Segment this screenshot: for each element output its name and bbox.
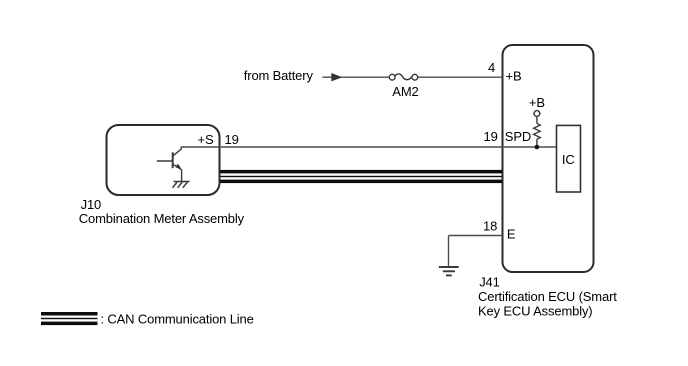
base lead [157, 160, 173, 162]
svg-text:+B: +B [506, 69, 522, 84]
svg-text:AM2: AM2 [392, 84, 418, 99]
svg-text:Certification ECU (Smart: Certification ECU (Smart [478, 289, 617, 304]
svg-text:J10: J10 [81, 197, 102, 212]
svg-text:IC: IC [562, 152, 575, 167]
legend CAN line sample [41, 312, 98, 325]
svg-text:J41: J41 [479, 274, 500, 289]
earth ground (J41 E) [439, 267, 459, 275]
svg-text:Combination Meter Assembly: Combination Meter Assembly [79, 211, 245, 226]
transistor Q (in J10) [157, 147, 182, 181]
fuse AM2 [389, 74, 417, 80]
connector box J41 Certification ECU [503, 45, 594, 272]
wire from Battery to pin 4 [322, 76, 502, 78]
svg-text:19: 19 [225, 132, 239, 147]
resistor (pull-up to +B) [534, 116, 541, 147]
svg-text:19: 19 [484, 129, 498, 144]
svg-text:18: 18 [483, 218, 497, 233]
svg-text:+B: +B [529, 95, 545, 110]
svg-text:SPD: SPD [505, 129, 531, 144]
CAN communication line (triple band) [221, 170, 503, 183]
svg-text:from Battery: from Battery [244, 68, 314, 83]
svg-text:Key ECU Assembly): Key ECU Assembly) [478, 303, 592, 318]
emitter lead down [181, 170, 183, 182]
collector [173, 147, 181, 156]
svg-text:+S: +S [198, 132, 214, 147]
base bar [172, 152, 174, 168]
+B pull-up terminal circle [533, 111, 541, 117]
arrow head (from Battery) [332, 73, 342, 81]
connector box J10 Combination Meter Assembly [107, 125, 220, 195]
svg-text:4: 4 [488, 60, 495, 75]
wire +S to SPD to IC [181, 146, 556, 148]
junction dot (SPD node) [535, 145, 540, 150]
IC box [557, 125, 581, 192]
wire pin 18 E to ground [449, 236, 503, 267]
svg-text:E: E [507, 227, 516, 242]
emitter with arrow [173, 164, 182, 170]
svg-text:: CAN Communication Line: : CAN Communication Line [101, 312, 254, 327]
chassis ground (J10) [173, 182, 190, 188]
